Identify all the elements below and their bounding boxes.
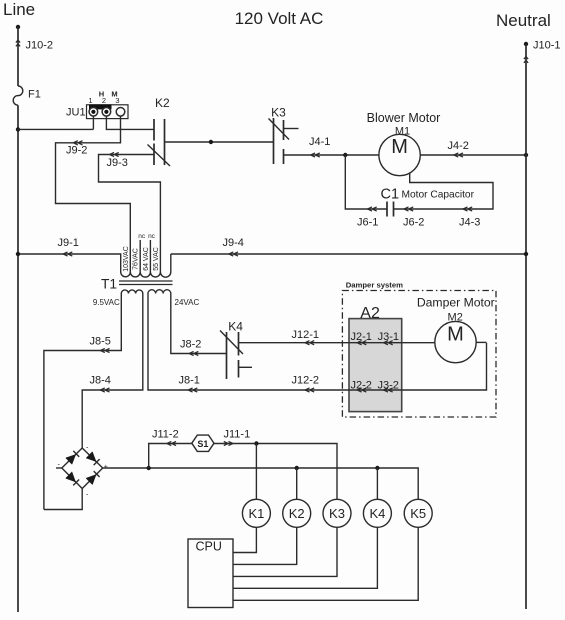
svg-text:9.5VAC: 9.5VAC xyxy=(93,298,120,307)
svg-text:J8-4: J8-4 xyxy=(90,375,111,387)
connector J12-2 xyxy=(292,374,320,392)
svg-text:M: M xyxy=(111,90,117,99)
svg-text:J11-1: J11-1 xyxy=(224,429,251,441)
svg-text:C1: C1 xyxy=(381,187,400,203)
node junction S1 branch xyxy=(147,466,151,470)
relay coil K1 xyxy=(242,499,270,527)
node 120 Volt AC label xyxy=(235,9,324,28)
svg-text:J3-1: J3-1 xyxy=(378,331,399,343)
wire JU1 pin2 to K2 xyxy=(106,116,154,129)
node junction K2-K3 xyxy=(209,140,213,144)
transformer T1 xyxy=(93,233,200,307)
motor M2 damper xyxy=(417,296,495,363)
relay coil K2 xyxy=(283,499,311,527)
svg-text:J11-2: J11-2 xyxy=(152,429,179,441)
svg-text:K4: K4 xyxy=(369,506,385,521)
node Neutral top terminal xyxy=(524,42,528,46)
svg-text:J9-2: J9-2 xyxy=(66,145,87,157)
svg-text:J10-2: J10-2 xyxy=(26,40,54,52)
svg-text:S1: S1 xyxy=(197,439,208,449)
connector J6-1 xyxy=(357,207,378,229)
svg-text:nc: nc xyxy=(138,233,146,240)
svg-text:Motor Capacitor: Motor Capacitor xyxy=(402,190,475,201)
damper system enclosure xyxy=(342,281,496,418)
svg-text:K3: K3 xyxy=(329,506,345,521)
connector J8-1 xyxy=(179,375,200,393)
wire J8-2 from 24VAC to K4 xyxy=(171,294,227,354)
svg-text:nc: nc xyxy=(148,233,156,240)
wire K4 output to damper motor xyxy=(239,342,436,344)
svg-text:Damper system: Damper system xyxy=(346,281,403,290)
svg-text:K2: K2 xyxy=(155,96,170,110)
connector J4-3 xyxy=(459,207,480,229)
svg-text:Line: Line xyxy=(3,0,35,19)
wire CPU to K1 xyxy=(233,527,256,552)
svg-text:T1: T1 xyxy=(101,277,117,292)
wire CPU to K4 xyxy=(233,527,377,588)
node junction K1 xyxy=(254,441,258,445)
wire K2 output to K3 xyxy=(165,141,274,143)
svg-text:1: 1 xyxy=(88,96,92,105)
relay contact K4 xyxy=(220,320,252,380)
wire Line to JU1 pin1 xyxy=(18,116,93,129)
wire M2 right loop xyxy=(476,341,486,343)
svg-text:J8-1: J8-1 xyxy=(179,375,200,387)
node junction Neutral J9-4 xyxy=(524,252,528,256)
svg-text:J9-4: J9-4 xyxy=(223,237,244,249)
svg-text:J4-3: J4-3 xyxy=(459,217,480,229)
relay contact K3 xyxy=(269,106,299,165)
svg-text:J8-2: J8-2 xyxy=(180,339,201,351)
connector J3-2 xyxy=(378,380,399,393)
wire K4 coil drop xyxy=(376,468,378,499)
motor M1 blower xyxy=(367,111,441,176)
wire Line rail lower xyxy=(17,105,19,612)
svg-text:CPU: CPU xyxy=(196,540,222,554)
wire J9-1 xyxy=(18,254,121,267)
svg-text:J2-1: J2-1 xyxy=(351,331,372,343)
node junction K2 xyxy=(295,466,299,470)
svg-text:J10-1: J10-1 xyxy=(533,40,561,52)
connector J8-4 xyxy=(90,375,111,393)
svg-text:K4: K4 xyxy=(228,320,243,334)
capacitor C1 xyxy=(381,187,475,217)
svg-text:J8-5: J8-5 xyxy=(90,336,111,348)
wire M1 to Neutral xyxy=(420,154,526,156)
connector J6-2 xyxy=(403,207,424,229)
connector J10-2 xyxy=(16,40,53,52)
wire capacitor loop xyxy=(345,155,493,209)
svg-text:K1: K1 xyxy=(248,506,264,521)
node Line label xyxy=(3,0,35,19)
wire J11-1 to K1 K3 xyxy=(214,444,337,500)
fuse F1 xyxy=(13,86,41,105)
node junction Line-JU1 xyxy=(16,127,20,131)
relay coil K3 xyxy=(323,499,351,527)
relay coil K4 xyxy=(363,499,391,527)
svg-text:J9-3: J9-3 xyxy=(107,157,128,169)
connector J9-3 xyxy=(107,152,128,169)
svg-text:M: M xyxy=(447,323,464,345)
connector J4-1 xyxy=(309,136,330,157)
svg-text:J3-2: J3-2 xyxy=(378,380,399,392)
switch S1 xyxy=(192,435,214,451)
wire S1 branch up xyxy=(149,444,192,469)
node junction Line J9-1 xyxy=(16,252,20,256)
svg-text:64 VAC: 64 VAC xyxy=(143,247,150,271)
node Neutral label xyxy=(496,11,551,30)
svg-text:J6-1: J6-1 xyxy=(357,217,378,229)
wire CPU to K2 xyxy=(233,527,297,564)
connector J2-2 xyxy=(351,380,372,393)
wire J9-3 to transformer 55VAC tap xyxy=(99,155,161,267)
node junction J4-1 capacitor branch xyxy=(343,153,347,157)
connector J2-1 xyxy=(351,331,372,345)
wire bridge bottom loop xyxy=(44,489,82,510)
wire J8-4 from 9.5VAC to bridge top xyxy=(82,294,143,449)
connector J8-5 xyxy=(90,336,111,353)
module A2 xyxy=(349,305,402,412)
svg-text:J6-2: J6-2 xyxy=(403,217,424,229)
svg-text:K3: K3 xyxy=(271,106,286,120)
bridge rectifier xyxy=(56,445,108,499)
connector J11-1 xyxy=(224,429,251,446)
svg-text:55 VAC: 55 VAC xyxy=(153,247,160,271)
connector J10-1 xyxy=(524,40,561,63)
svg-text:J9-1: J9-1 xyxy=(58,237,79,249)
svg-text:Blower Motor: Blower Motor xyxy=(367,111,441,125)
svg-text:J2-2: J2-2 xyxy=(351,380,372,392)
connector J4-2 xyxy=(448,140,469,157)
wire Line rail upper xyxy=(17,27,19,86)
jumper block JU1 xyxy=(66,90,128,119)
relay coil K5 xyxy=(404,499,432,527)
wire K2 coil drop xyxy=(296,468,298,499)
wire J8-1 J12-2 from 24VAC to damper xyxy=(148,294,487,391)
node junction K4 xyxy=(375,466,379,470)
wire Neutral rail xyxy=(525,44,527,609)
svg-text:A2: A2 xyxy=(360,305,380,322)
svg-text:K2: K2 xyxy=(289,506,305,521)
svg-text:J4-2: J4-2 xyxy=(448,140,469,152)
svg-text:F1: F1 xyxy=(28,89,41,101)
connector J12-1 xyxy=(292,329,320,345)
svg-text:24VAC: 24VAC xyxy=(175,298,200,307)
svg-text:M: M xyxy=(391,136,408,158)
node junction Neutral J4-2 xyxy=(524,153,528,157)
svg-text:103VAC: 103VAC xyxy=(123,246,130,272)
svg-text:76VAC: 76VAC xyxy=(133,248,140,270)
relay contact K2 xyxy=(148,96,171,166)
wire CPU to K5 xyxy=(233,527,418,600)
svg-text:H: H xyxy=(99,90,104,99)
wire J8-5 from 9.5VAC to bridge xyxy=(44,294,121,510)
svg-text:JU1: JU1 xyxy=(66,107,86,119)
wire K3 output to blower motor xyxy=(284,154,380,156)
connector J11-2 xyxy=(152,429,179,446)
CPU box xyxy=(188,539,233,608)
svg-text:K5: K5 xyxy=(410,506,426,521)
wire JU1 pin3 to J9-2 to transformer 103VAC tap xyxy=(56,116,131,267)
connector J9-1 xyxy=(58,237,79,256)
svg-text:J12-2: J12-2 xyxy=(292,374,320,386)
svg-text:Neutral: Neutral xyxy=(496,11,551,30)
svg-text:J12-1: J12-1 xyxy=(292,329,320,341)
node Line top terminal xyxy=(16,25,20,29)
wire CPU to K3 xyxy=(233,527,337,576)
connector J9-2 xyxy=(66,141,87,157)
connector J3-1 xyxy=(378,331,399,345)
wire K1 drop xyxy=(255,444,257,500)
connector J9-4 xyxy=(223,237,244,256)
svg-text:Damper Motor: Damper Motor xyxy=(417,296,495,310)
svg-text:120 Volt AC: 120 Volt AC xyxy=(235,9,324,28)
connector J8-2 xyxy=(180,339,201,356)
svg-text:J4-1: J4-1 xyxy=(309,136,330,148)
wire J9-4 xyxy=(171,254,526,267)
wire bridge positive output rail xyxy=(103,468,419,499)
